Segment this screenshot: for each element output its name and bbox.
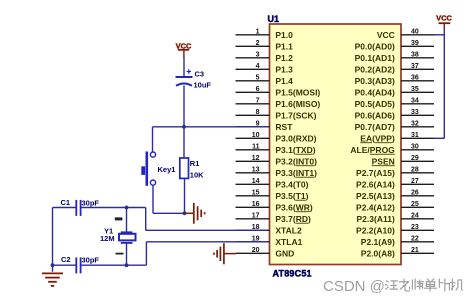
svg-text:P3.5(T1): P3.5(T1) — [275, 191, 308, 201]
junction RST/C3/R1 — [182, 125, 186, 129]
svg-text:CSDN @: CSDN @ — [323, 278, 385, 295]
junction Key1/R1 ground rail — [183, 211, 187, 215]
watermark hanzi 3 — [412, 279, 423, 289]
svg-text:P0.6(AD6): P0.6(AD6) — [355, 110, 395, 120]
pin 8 P1.7(SCK) stub, number and name — [236, 109, 317, 120]
svg-text:R1: R1 — [190, 159, 200, 168]
wire R1 bottom to ground rail — [184, 178, 186, 213]
svg-text:10K: 10K — [190, 170, 204, 179]
svg-text:P2.7(A15): P2.7(A15) — [356, 168, 395, 178]
svg-text:P2.3(A11): P2.3(A11) — [357, 214, 395, 224]
svg-text:P0.5(AD5): P0.5(AD5) — [355, 99, 395, 109]
pin 40 VCC stub, number and name — [377, 29, 434, 40]
pin 20 GND stub, number and name — [236, 247, 295, 258]
svg-text:24: 24 — [411, 213, 419, 220]
wire VCC to C3 top — [183, 58, 185, 77]
svg-text:22: 22 — [411, 236, 419, 243]
wire C1 right to XTAL2 corner — [81, 207, 146, 209]
ground symbol (reset circuit) — [186, 203, 205, 224]
svg-text:6: 6 — [256, 86, 260, 93]
pin 10 P3.0(RXD) stub, number and name — [236, 132, 317, 143]
pin 30 ALE/PROG stub, number and name — [350, 144, 434, 155]
svg-text:12M: 12M — [100, 234, 115, 243]
svg-text:4: 4 — [256, 63, 260, 70]
wire ground rail vertical (crystal left) — [52, 208, 54, 266]
wire crystal top drop — [126, 208, 128, 233]
ground symbol (GND pin 20) — [214, 243, 236, 264]
junction crystal bottom — [125, 263, 129, 267]
svg-text:P1.1: P1.1 — [275, 41, 293, 51]
svg-text:P1.7(SCK): P1.7(SCK) — [275, 110, 316, 120]
wire C3 bottom to RST rail — [183, 86, 185, 127]
svg-text:P3.6(WR): P3.6(WR) — [275, 202, 313, 212]
svg-text:RST: RST — [275, 122, 293, 132]
svg-text:P2.1(A9): P2.1(A9) — [361, 237, 395, 247]
power symbol VCC (right) — [436, 14, 452, 30]
svg-text:XTLA1: XTLA1 — [275, 237, 302, 247]
junction ground rail / C2 — [51, 263, 55, 267]
pin 3 P1.2 stub, number and name — [236, 52, 294, 63]
svg-text:C3: C3 — [195, 70, 205, 79]
svg-text:P2.5(A13): P2.5(A13) — [356, 191, 395, 201]
pin 6 P1.5(MOSI) stub, number and name — [236, 86, 321, 97]
svg-text:3: 3 — [256, 52, 260, 59]
svg-text:30pF: 30pF — [82, 199, 100, 208]
pin 37 P0.2(AD2) stub, number and name — [355, 63, 434, 74]
svg-text:10: 10 — [252, 132, 260, 139]
svg-text:P1.5(MOSI): P1.5(MOSI) — [275, 87, 320, 97]
pin 23 P2.2(A10) stub, number and name — [356, 224, 434, 235]
crystal Y1 — [119, 232, 136, 243]
svg-text:13: 13 — [252, 167, 260, 174]
svg-text:2: 2 — [256, 40, 260, 47]
pin 19 XTLA1 stub, number and name — [236, 236, 303, 247]
pin 32 P0.7(AD7) stub, number and name — [355, 121, 434, 132]
pin 17 P3.7(RD) stub, number and name — [236, 213, 312, 224]
pin 13 P3.3(INT1) stub, number and name — [236, 167, 318, 178]
svg-text:29: 29 — [411, 155, 419, 162]
stray mark near crystal top — [115, 217, 123, 220]
wire Key1 bottom to ground rail — [153, 185, 185, 213]
svg-text:12: 12 — [252, 155, 260, 162]
pin 35 P0.4(AD4) stub, number and name — [355, 86, 434, 97]
svg-text:20: 20 — [252, 247, 260, 254]
svg-text:30: 30 — [411, 144, 419, 151]
pin 12 P3.2(INT0) stub, number and name — [236, 155, 318, 166]
pin 16 P3.6(WR) stub, number and name — [236, 201, 313, 212]
wire RST rail down to Key1 — [152, 127, 154, 152]
svg-text:C2: C2 — [61, 255, 71, 264]
svg-text:21: 21 — [411, 247, 419, 254]
pin 4 P1.3 stub, number and name — [236, 63, 294, 74]
svg-text:27: 27 — [411, 178, 419, 185]
capacitor C1 — [53, 200, 81, 216]
pin 34 P0.5(AD5) stub, number and name — [355, 98, 434, 109]
svg-text:P1.6(MISO): P1.6(MISO) — [275, 99, 320, 109]
ground symbol (crystal circuit) — [42, 265, 63, 286]
wire RST rail to pin 9 — [153, 126, 269, 128]
svg-text:37: 37 — [411, 63, 419, 70]
capacitor C2 — [53, 257, 81, 273]
svg-text:P0.1(AD1): P0.1(AD1) — [355, 53, 395, 63]
pin 36 P0.3(AD3) stub, number and name — [355, 75, 434, 86]
svg-text:EA(VPP): EA(VPP) — [360, 133, 395, 143]
pin 33 P0.6(AD6) stub, number and name — [355, 109, 434, 120]
svg-text:C1: C1 — [61, 198, 71, 207]
svg-text:38: 38 — [411, 52, 419, 59]
svg-text:AT89C51: AT89C51 — [273, 269, 312, 279]
svg-text:11: 11 — [252, 144, 260, 151]
svg-text:16: 16 — [252, 201, 260, 208]
capacitor C3 polarized — [176, 69, 193, 86]
junction crystal top — [125, 206, 129, 210]
svg-text:26: 26 — [411, 190, 419, 197]
pin 7 P1.6(MISO) stub, number and name — [236, 98, 321, 109]
svg-text:P0.7(AD7): P0.7(AD7) — [355, 122, 395, 132]
svg-text:ALE/PROG: ALE/PROG — [350, 145, 395, 155]
pin 38 P0.1(AD1) stub, number and name — [355, 52, 434, 63]
svg-text:25: 25 — [411, 201, 419, 208]
pin 31 EA(VPP) stub, number and name — [360, 132, 434, 143]
svg-text:P1.3: P1.3 — [275, 64, 293, 74]
watermark hanzi 2 — [399, 279, 409, 291]
power symbol VCC (reset circuit) — [176, 41, 192, 58]
pin 24 P2.3(A11) stub, number and name — [357, 213, 434, 224]
svg-text:VCC: VCC — [436, 14, 452, 23]
pin 25 P2.4(A12) stub, number and name — [356, 201, 434, 212]
svg-text:P2.0(A8): P2.0(A8) — [361, 248, 395, 258]
pin 1 P1.0 stub, number and name — [236, 29, 294, 40]
svg-text:7: 7 — [256, 98, 260, 105]
watermark hanzi 6 — [451, 279, 463, 290]
IC U1 AT89C51 body — [270, 24, 402, 265]
svg-text:36: 36 — [411, 75, 419, 82]
pin 2 P1.1 stub, number and name — [236, 40, 294, 51]
pin 15 P3.5(T1) stub, number and name — [236, 190, 309, 201]
pin 28 P2.7(A15) stub, number and name — [356, 167, 434, 178]
pin 9 RST stub, number and name — [236, 121, 294, 132]
pin 39 P0.0(AD0) stub, number and name — [355, 40, 434, 51]
svg-text:P1.4: P1.4 — [275, 76, 293, 86]
svg-text:10uF: 10uF — [194, 81, 212, 90]
svg-text:39: 39 — [411, 40, 419, 47]
pin 5 P1.4 stub, number and name — [236, 75, 294, 86]
svg-text:P2.6(A14): P2.6(A14) — [356, 179, 395, 189]
svg-text:23: 23 — [411, 224, 419, 231]
svg-text:P3.1(TXD): P3.1(TXD) — [275, 145, 315, 155]
svg-text:P0.3(AD3): P0.3(AD3) — [355, 76, 395, 86]
watermark CSDN — [323, 278, 385, 295]
svg-text:32: 32 — [411, 121, 419, 128]
svg-text:P3.4(T0): P3.4(T0) — [275, 179, 308, 189]
watermark hanzi 1 — [386, 281, 398, 289]
svg-text:28: 28 — [411, 167, 419, 174]
svg-text:P2.4(A12): P2.4(A12) — [356, 202, 395, 212]
pin 18 XTAL2 stub, number and name — [236, 224, 302, 235]
pin 29 PSEN stub, number and name — [372, 155, 434, 166]
svg-text:P3.3(INT1): P3.3(INT1) — [275, 168, 317, 178]
svg-text:P0.4(AD4): P0.4(AD4) — [355, 87, 395, 97]
svg-text:P3.0(RXD): P3.0(RXD) — [275, 133, 316, 143]
svg-text:34: 34 — [411, 98, 419, 105]
svg-text:33: 33 — [411, 109, 419, 116]
pin 14 P3.4(T0) stub, number and name — [236, 178, 309, 189]
svg-text:P0.2(AD2): P0.2(AD2) — [355, 64, 395, 74]
wire RST junction down to R1 — [183, 127, 185, 158]
wire crystal bottom drop — [126, 243, 128, 265]
svg-text:P0.0(AD0): P0.0(AD0) — [355, 41, 395, 51]
svg-text:1: 1 — [256, 29, 260, 36]
svg-text:P3.7(RD): P3.7(RD) — [275, 214, 311, 224]
wire XTAL2 net to pin 18 — [146, 208, 269, 231]
svg-text:8: 8 — [256, 109, 260, 116]
svg-text:XTAL2: XTAL2 — [275, 225, 302, 235]
svg-text:31: 31 — [411, 132, 419, 139]
pin 26 P2.5(A13) stub, number and name — [356, 190, 434, 201]
svg-text:14: 14 — [252, 178, 260, 185]
svg-text:17: 17 — [252, 213, 260, 220]
svg-text:GND: GND — [275, 248, 294, 258]
pin 21 P2.0(A8) stub, number and name — [361, 247, 434, 258]
stray dash left of crystal bottom — [116, 253, 124, 255]
pin 11 P3.1(TXD) stub, number and name — [236, 144, 316, 155]
watermark hanzi 4 — [425, 279, 437, 291]
svg-text:15: 15 — [252, 190, 260, 197]
pin 27 P2.6(A14) stub, number and name — [356, 178, 434, 189]
wire VCC to pin 40 and pin 31 EA — [434, 29, 444, 139]
svg-text:P3.2(INT0): P3.2(INT0) — [275, 156, 317, 166]
watermark hanzi 5 — [439, 279, 449, 291]
svg-text:P1.2: P1.2 — [275, 53, 293, 63]
svg-text:Key1: Key1 — [158, 165, 176, 174]
switch Key1 push button — [141, 152, 155, 186]
pin 22 P2.1(A9) stub, number and name — [361, 236, 434, 247]
svg-text:P1.0: P1.0 — [275, 30, 293, 40]
wire C2 right to XTAL1 corner — [81, 264, 147, 266]
svg-text:VCC: VCC — [377, 30, 395, 40]
svg-text:40: 40 — [411, 29, 419, 36]
svg-text:PSEN: PSEN — [372, 156, 395, 166]
svg-text:35: 35 — [411, 86, 419, 93]
svg-text:5: 5 — [256, 75, 260, 82]
svg-text:30pF: 30pF — [82, 256, 100, 265]
wire XTAL1 net to pin 19 — [146, 242, 268, 265]
svg-text:U1: U1 — [268, 14, 280, 24]
resistor R1 — [180, 158, 189, 178]
svg-text:P2.2(A10): P2.2(A10) — [356, 225, 395, 235]
